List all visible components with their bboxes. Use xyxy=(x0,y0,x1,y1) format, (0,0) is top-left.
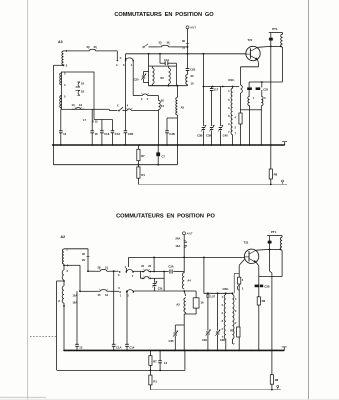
svg-text:24: 24 xyxy=(161,104,165,108)
svg-text:A5: A5 xyxy=(181,106,185,110)
svg-text:20: 20 xyxy=(191,74,195,78)
svg-text:30: 30 xyxy=(182,39,186,43)
svg-text:C39: C39 xyxy=(206,134,212,138)
svg-text:24A: 24A xyxy=(175,237,180,241)
svg-text:14: 14 xyxy=(72,103,76,107)
svg-text:C7A: C7A xyxy=(115,132,121,136)
svg-text:C: C xyxy=(118,286,120,290)
svg-text:C4B: C4B xyxy=(128,132,134,136)
svg-text:30: 30 xyxy=(161,99,165,103)
svg-text:R2: R2 xyxy=(161,76,165,80)
svg-text:R1: R1 xyxy=(153,380,157,384)
svg-text:OSC.: OSC. xyxy=(223,287,230,291)
svg-text:A3: A3 xyxy=(58,40,63,44)
svg-text:C2B: C2B xyxy=(264,285,269,289)
svg-text:15A: 15A xyxy=(72,294,77,298)
svg-text:C1A: C1A xyxy=(116,345,122,349)
svg-text:COMMUTATEURS EN POSITION PO: COMMUTATEURS EN POSITION PO xyxy=(116,213,215,219)
svg-text:16: 16 xyxy=(81,81,85,85)
svg-text:C20: C20 xyxy=(134,77,139,81)
svg-text:C1B: C1B xyxy=(190,68,195,72)
svg-text:20: 20 xyxy=(87,45,91,49)
svg-text:C40: C40 xyxy=(223,134,229,138)
svg-text:C: C xyxy=(120,56,122,60)
svg-text:C35: C35 xyxy=(168,339,174,343)
svg-text:C3A: C3A xyxy=(168,265,173,269)
svg-text:16A: 16A xyxy=(72,301,77,305)
svg-text:C3B: C3B xyxy=(197,134,203,138)
svg-text:117: 117 xyxy=(214,88,219,92)
svg-text:12: 12 xyxy=(79,103,83,107)
svg-text:R7: R7 xyxy=(153,360,157,364)
svg-text:C25: C25 xyxy=(263,88,268,92)
svg-text:C1A: C1A xyxy=(164,58,169,62)
svg-text:COMMUTATEURS EN POSITION GO: COMMUTATEURS EN POSITION GO xyxy=(114,12,214,18)
svg-text:ANT: ANT xyxy=(187,232,193,236)
svg-text:C14: C14 xyxy=(129,345,135,349)
svg-text:R1: R1 xyxy=(141,173,145,177)
svg-text:C4B: C4B xyxy=(169,132,175,136)
svg-text:C39: C39 xyxy=(202,338,207,342)
svg-text:1.07: 1.07 xyxy=(210,295,216,299)
svg-text:OSC.: OSC. xyxy=(228,78,235,82)
svg-text:R6: R6 xyxy=(262,299,266,303)
svg-text:A2: A2 xyxy=(61,235,66,239)
svg-text:C: C xyxy=(117,105,119,108)
svg-text:31: 31 xyxy=(182,46,186,50)
svg-text:C: C xyxy=(118,273,120,277)
svg-text:PT1: PT1 xyxy=(272,27,278,31)
svg-text:16: 16 xyxy=(95,132,99,136)
svg-text:A5: A5 xyxy=(176,303,180,307)
svg-text:10: 10 xyxy=(191,82,195,86)
svg-text:5 12: 5 12 xyxy=(93,120,99,124)
svg-text:12: 12 xyxy=(79,345,83,349)
svg-text:16: 16 xyxy=(201,301,205,305)
svg-text:C30: C30 xyxy=(158,288,163,291)
svg-text:C18: C18 xyxy=(104,132,110,136)
svg-text:12: 12 xyxy=(63,132,67,136)
svg-text:A4: A4 xyxy=(187,279,191,283)
svg-text:T31: T31 xyxy=(244,241,249,245)
svg-text:13A: 13A xyxy=(175,244,180,248)
svg-text:R8: R8 xyxy=(274,173,278,177)
svg-text:R5: R5 xyxy=(230,329,234,333)
svg-text:R7: R7 xyxy=(141,154,145,158)
svg-text:23: 23 xyxy=(94,45,98,49)
svg-text:ANT: ANT xyxy=(190,26,196,30)
svg-text:T21: T21 xyxy=(248,38,253,42)
svg-text:R8: R8 xyxy=(275,378,279,382)
svg-text:18: 18 xyxy=(81,89,85,93)
svg-text:C7: C7 xyxy=(162,155,166,159)
svg-text:PT1: PT1 xyxy=(271,230,277,234)
